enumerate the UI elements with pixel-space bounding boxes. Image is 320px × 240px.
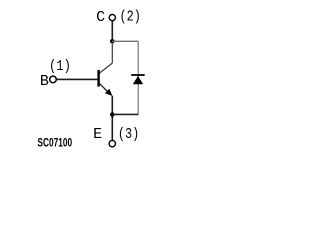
wire: emitter down to bottom junction xyxy=(111,96,113,141)
node: top junction dot xyxy=(110,39,115,44)
svg-text:E: E xyxy=(93,126,102,143)
wire: top horizontal to diode branch xyxy=(112,40,138,42)
node: bottom junction dot xyxy=(110,112,115,117)
wire: base lead xyxy=(57,78,98,80)
svg-text:(2): (2) xyxy=(120,9,141,26)
svg-text:C: C xyxy=(96,9,105,26)
svg-text:(3): (3) xyxy=(118,126,139,143)
transistor Q1 base bar xyxy=(97,70,99,87)
wire: collector diagonal to base bar xyxy=(99,63,112,73)
wire: emitter diagonal xyxy=(99,83,108,92)
terminal circle B (pin 1) xyxy=(50,76,57,83)
emitter arrowhead xyxy=(105,89,113,96)
svg-text:SC07100: SC07100 xyxy=(37,136,72,149)
diode D1 triangle xyxy=(133,76,143,84)
terminal circle E (pin 3) xyxy=(109,140,115,146)
svg-text:(1): (1) xyxy=(49,58,71,75)
diode D1 cathode bar xyxy=(131,74,145,76)
svg-text:B: B xyxy=(40,73,49,90)
wire: bottom horizontal from junction xyxy=(112,113,138,115)
wire: diode branch vertical xyxy=(137,41,139,114)
wire: C terminal down to top junction xyxy=(111,21,113,41)
terminal circle C (pin 2) xyxy=(109,15,115,21)
wire: junction down to collector elbow xyxy=(111,41,113,63)
